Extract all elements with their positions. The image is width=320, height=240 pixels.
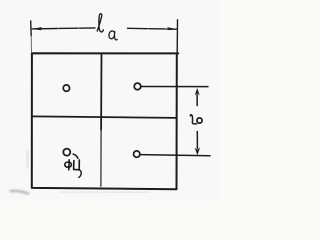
faint pencil smudge near bottom-left corner xyxy=(10,191,29,194)
dimension line la, left part xyxy=(32,28,95,29)
dimension line b, lower segment xyxy=(196,132,198,149)
leader from bottom-right hole xyxy=(141,155,210,156)
horizontal divider xyxy=(32,116,177,118)
extension line left (top dimension) xyxy=(30,21,33,36)
extension line left, faint lower part xyxy=(30,36,32,53)
label l (script ell of la) xyxy=(97,14,103,32)
hole bottom-left xyxy=(63,149,70,156)
label b: bowl xyxy=(197,118,202,123)
hole bottom-right xyxy=(134,151,140,157)
leader tick to label FC xyxy=(73,154,78,158)
dimension line b, upper segment xyxy=(196,95,198,106)
faint smudge left of plate mid xyxy=(27,150,28,168)
arrowhead right (la) xyxy=(167,27,178,30)
dimension line la, right part xyxy=(128,27,177,30)
arrowhead up (b) xyxy=(195,88,200,95)
leader from top-right hole xyxy=(142,86,208,88)
vertical divider (lower, lighter part) xyxy=(100,130,102,186)
label Ts (Cyrillic Tse) xyxy=(74,160,80,170)
hole top-right xyxy=(134,83,141,90)
label Ts: descender hook xyxy=(79,170,81,178)
faint scan ghost under bottom edge xyxy=(60,191,150,194)
extension line right (top dimension) xyxy=(176,20,178,53)
arrowhead down (b) xyxy=(195,147,201,155)
label F: loop xyxy=(65,162,72,167)
plate outline (square) xyxy=(32,53,179,189)
vertical divider (upper part) xyxy=(100,53,102,130)
arrowhead left (la) xyxy=(32,27,42,30)
label b (Cyrillic be, rotated 90deg CCW): stem+hook xyxy=(190,115,196,124)
label F (Cyrillic Ef): stem xyxy=(68,160,70,170)
label a (subscript of la) xyxy=(109,31,117,40)
hole top-left xyxy=(63,85,69,91)
